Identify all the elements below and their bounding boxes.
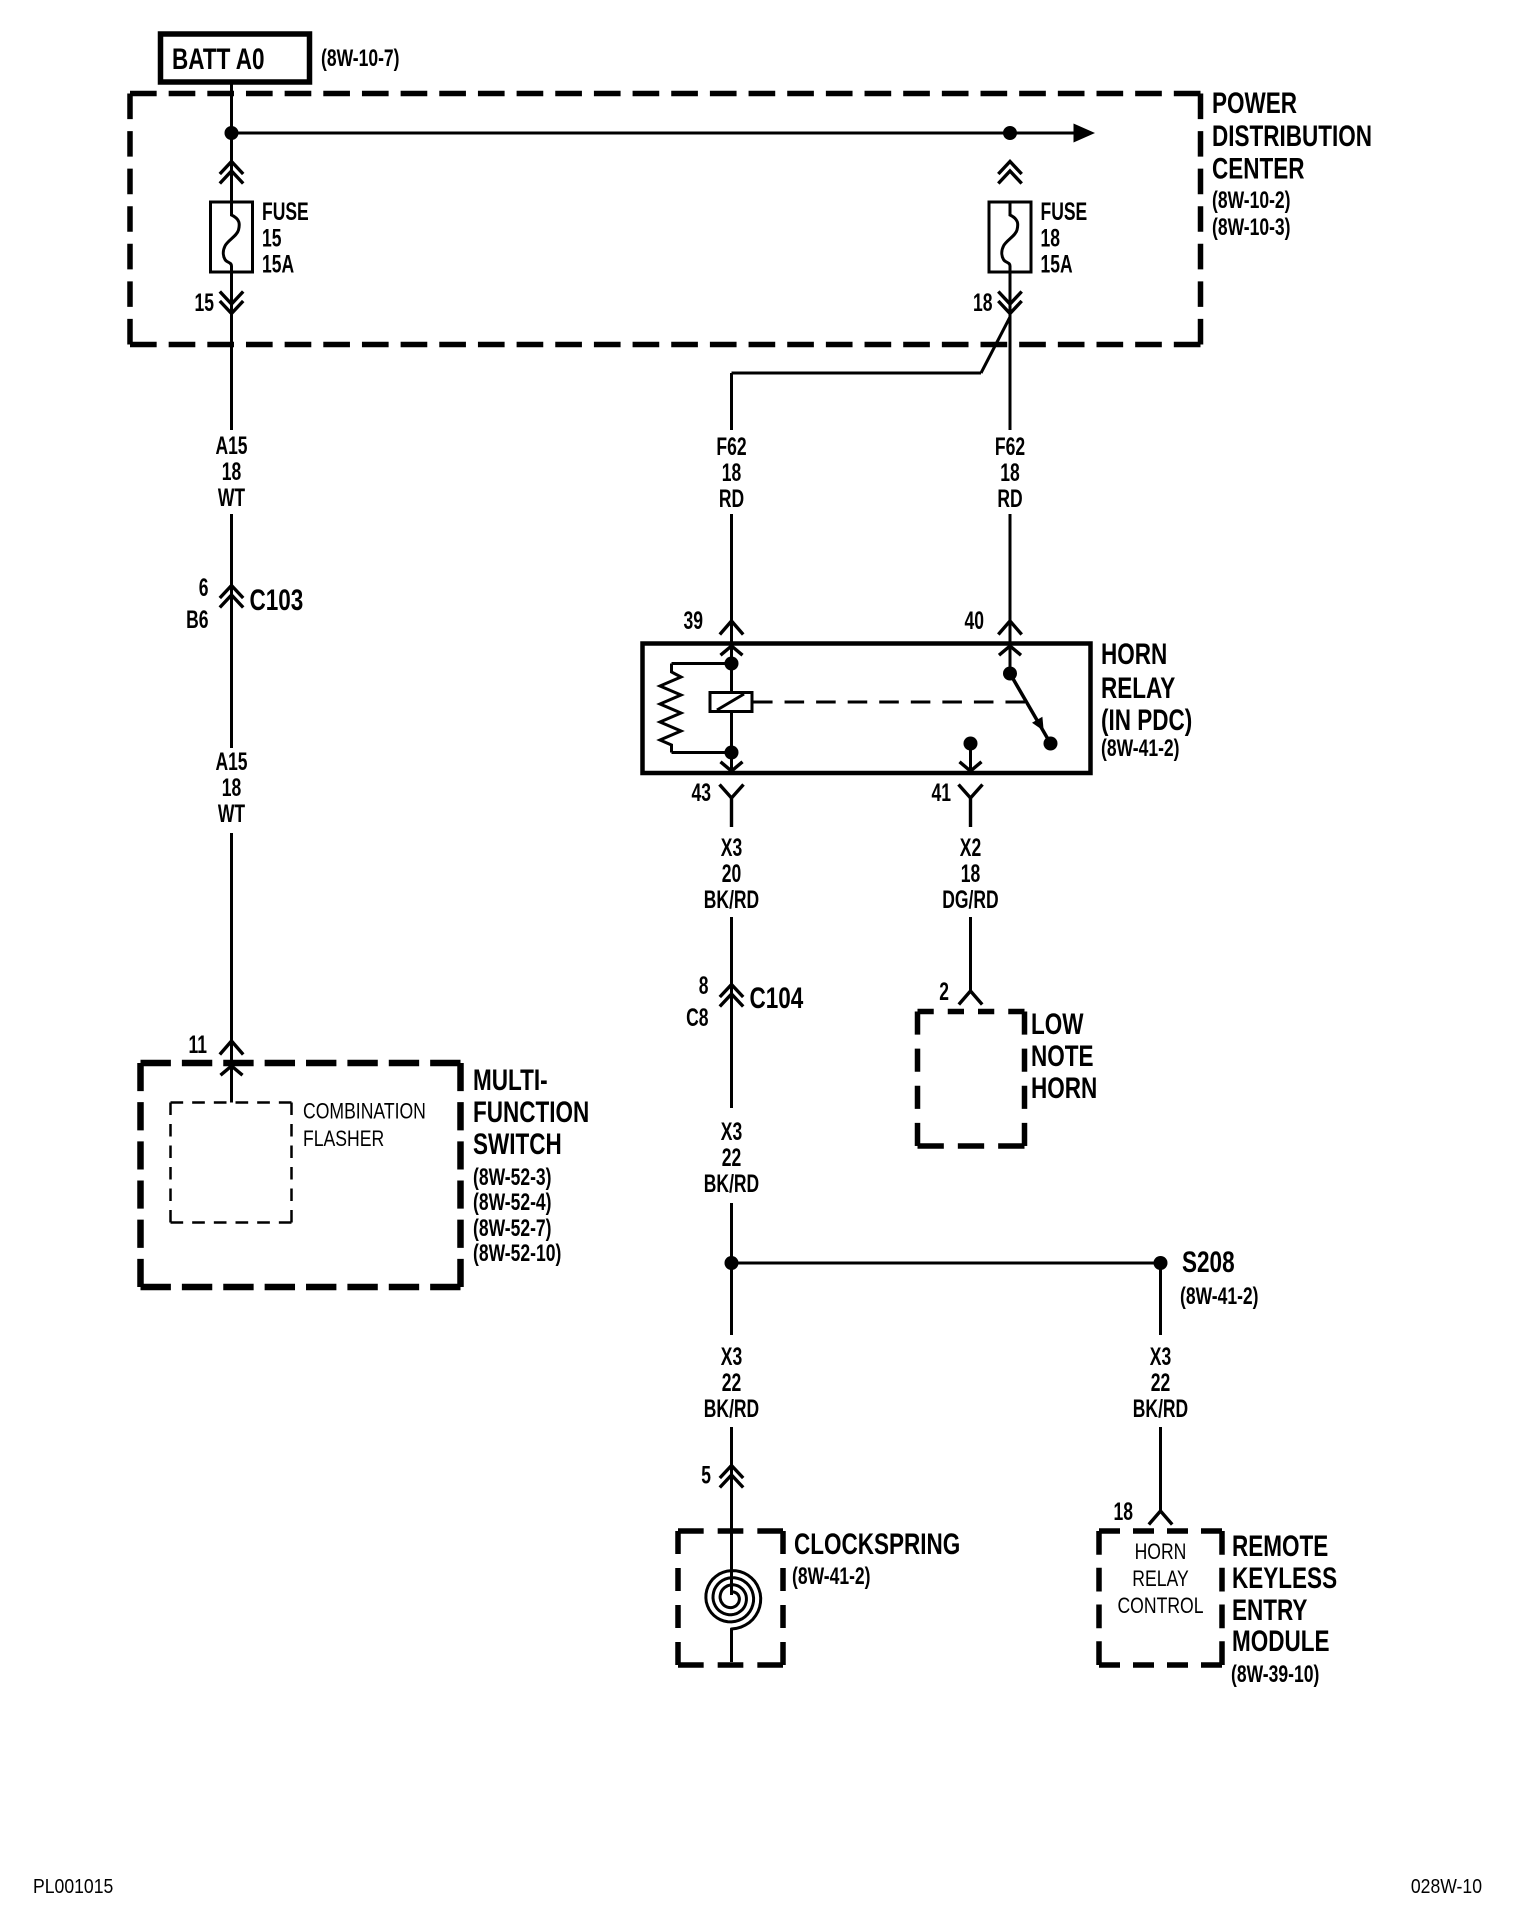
svg-text:FUNCTION: FUNCTION bbox=[473, 1096, 589, 1129]
svg-text:C8: C8 bbox=[686, 1004, 708, 1032]
svg-text:18: 18 bbox=[222, 458, 242, 486]
svg-text:CENTER: CENTER bbox=[1212, 153, 1305, 186]
svg-text:18: 18 bbox=[222, 774, 242, 802]
svg-text:FUSE: FUSE bbox=[262, 198, 309, 226]
svg-text:X3: X3 bbox=[721, 1343, 742, 1371]
svg-text:15: 15 bbox=[195, 289, 215, 317]
svg-text:SWITCH: SWITCH bbox=[473, 1128, 562, 1161]
svg-text:C103: C103 bbox=[250, 584, 304, 617]
svg-text:HORN: HORN bbox=[1101, 638, 1167, 671]
svg-text:028W-10: 028W-10 bbox=[1411, 1876, 1482, 1898]
svg-text:CLOCKSPRING: CLOCKSPRING bbox=[794, 1528, 960, 1561]
svg-text:15A: 15A bbox=[262, 251, 294, 279]
svg-text:F62: F62 bbox=[716, 433, 746, 461]
svg-text:22: 22 bbox=[722, 1369, 742, 1397]
svg-text:(8W-52-4): (8W-52-4) bbox=[473, 1189, 552, 1216]
svg-text:5: 5 bbox=[701, 1462, 711, 1490]
svg-text:18: 18 bbox=[1000, 459, 1020, 487]
svg-text:RD: RD bbox=[719, 485, 744, 513]
svg-text:BATT A0: BATT A0 bbox=[172, 43, 265, 76]
svg-text:A15: A15 bbox=[215, 748, 247, 776]
svg-text:PL001015: PL001015 bbox=[33, 1876, 113, 1898]
svg-text:RD: RD bbox=[997, 485, 1022, 513]
svg-text:(8W-52-7): (8W-52-7) bbox=[473, 1215, 552, 1242]
svg-text:WT: WT bbox=[218, 484, 245, 512]
svg-text:15: 15 bbox=[262, 225, 282, 253]
svg-text:(8W-39-10): (8W-39-10) bbox=[1231, 1661, 1319, 1688]
svg-text:BK/RD: BK/RD bbox=[704, 1170, 759, 1198]
svg-text:39: 39 bbox=[684, 607, 704, 635]
svg-text:COMBINATION: COMBINATION bbox=[303, 1099, 426, 1124]
svg-text:DISTRIBUTION: DISTRIBUTION bbox=[1212, 120, 1372, 153]
svg-text:ENTRY: ENTRY bbox=[1232, 1594, 1307, 1627]
svg-text:2: 2 bbox=[939, 978, 949, 1006]
svg-text:REMOTE: REMOTE bbox=[1232, 1530, 1328, 1563]
svg-text:NOTE: NOTE bbox=[1031, 1040, 1094, 1073]
svg-text:S208: S208 bbox=[1182, 1246, 1235, 1279]
svg-text:X3: X3 bbox=[721, 834, 742, 862]
svg-text:18: 18 bbox=[1114, 1498, 1134, 1526]
svg-text:BK/RD: BK/RD bbox=[704, 886, 759, 914]
svg-text:RELAY: RELAY bbox=[1101, 672, 1175, 705]
svg-text:(8W-41-2): (8W-41-2) bbox=[792, 1563, 871, 1590]
svg-text:18: 18 bbox=[722, 459, 742, 487]
svg-text:(8W-10-2): (8W-10-2) bbox=[1212, 187, 1291, 214]
svg-text:(8W-10-3): (8W-10-3) bbox=[1212, 214, 1291, 241]
svg-text:(8W-41-2): (8W-41-2) bbox=[1101, 735, 1180, 762]
svg-text:C104: C104 bbox=[750, 982, 804, 1015]
svg-text:MULTI-: MULTI- bbox=[473, 1064, 548, 1097]
svg-text:(IN PDC): (IN PDC) bbox=[1101, 704, 1192, 737]
svg-text:(8W-10-7): (8W-10-7) bbox=[321, 45, 400, 72]
svg-text:HORN: HORN bbox=[1031, 1072, 1097, 1105]
svg-text:FUSE: FUSE bbox=[1041, 198, 1088, 226]
svg-text:X3: X3 bbox=[721, 1118, 742, 1146]
svg-text:POWER: POWER bbox=[1212, 87, 1297, 120]
svg-text:41: 41 bbox=[932, 779, 952, 807]
svg-text:(8W-41-2): (8W-41-2) bbox=[1180, 1283, 1259, 1310]
svg-text:DG/RD: DG/RD bbox=[942, 886, 998, 914]
svg-text:22: 22 bbox=[722, 1144, 742, 1172]
svg-text:BK/RD: BK/RD bbox=[1133, 1395, 1188, 1423]
svg-text:F62: F62 bbox=[995, 433, 1025, 461]
svg-text:18: 18 bbox=[961, 860, 981, 888]
svg-text:22: 22 bbox=[1151, 1369, 1171, 1397]
svg-text:WT: WT bbox=[218, 800, 245, 828]
svg-text:HORN: HORN bbox=[1135, 1539, 1187, 1564]
svg-text:(8W-52-10): (8W-52-10) bbox=[473, 1240, 561, 1267]
svg-text:20: 20 bbox=[722, 860, 742, 888]
svg-text:LOW: LOW bbox=[1031, 1008, 1084, 1041]
svg-text:RELAY: RELAY bbox=[1132, 1566, 1189, 1591]
svg-text:8: 8 bbox=[699, 972, 709, 1000]
svg-text:(8W-52-3): (8W-52-3) bbox=[473, 1164, 552, 1191]
svg-text:40: 40 bbox=[965, 607, 985, 635]
svg-text:X2: X2 bbox=[960, 834, 981, 862]
svg-text:11: 11 bbox=[189, 1031, 208, 1059]
svg-text:CONTROL: CONTROL bbox=[1117, 1593, 1203, 1618]
svg-text:B6: B6 bbox=[186, 606, 208, 634]
svg-text:MODULE: MODULE bbox=[1232, 1625, 1330, 1658]
svg-text:18: 18 bbox=[973, 289, 993, 317]
svg-text:15A: 15A bbox=[1041, 251, 1073, 279]
svg-text:43: 43 bbox=[692, 779, 712, 807]
svg-text:18: 18 bbox=[1041, 225, 1061, 253]
svg-text:A15: A15 bbox=[215, 432, 247, 460]
svg-text:BK/RD: BK/RD bbox=[704, 1395, 759, 1423]
svg-text:6: 6 bbox=[199, 574, 209, 602]
svg-text:FLASHER: FLASHER bbox=[303, 1126, 384, 1151]
svg-text:X3: X3 bbox=[1150, 1343, 1171, 1371]
svg-text:KEYLESS: KEYLESS bbox=[1232, 1562, 1337, 1595]
